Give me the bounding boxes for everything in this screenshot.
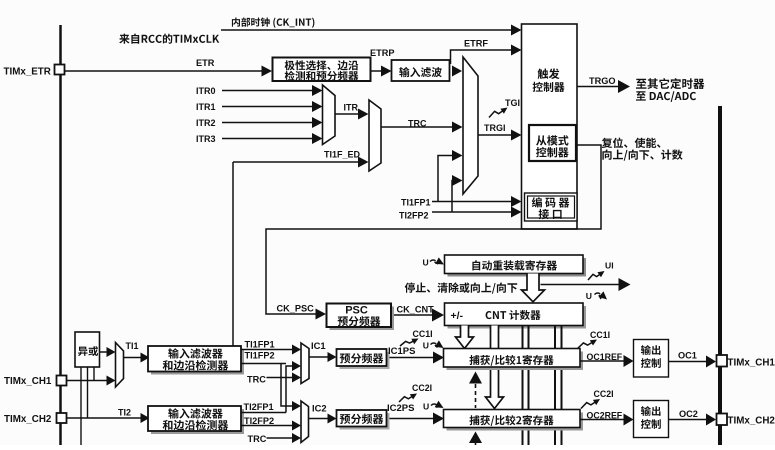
block capture compare register 1 bbox=[447, 352, 584, 371]
svg-text:UI: UI bbox=[605, 261, 614, 271]
capture arrow up ch2 bbox=[469, 432, 482, 444]
block PSC prescaler bbox=[330, 307, 395, 331]
block output control 2 bbox=[634, 401, 669, 438]
svg-text:TI1F_ED: TI1F_ED bbox=[324, 150, 361, 160]
wire ITR0 bbox=[222, 90, 315, 92]
text 预分频器 IC2 bbox=[340, 414, 384, 424]
text 输入滤波 bbox=[399, 67, 442, 77]
wire CK_CNT bbox=[394, 314, 433, 316]
mux TRGI select bbox=[463, 57, 478, 194]
text 输出 1 bbox=[641, 345, 661, 355]
text 停止、清除或向上/向下 bbox=[405, 282, 518, 293]
svg-text:TI2: TI2 bbox=[118, 408, 131, 418]
svg-text:TI1FP2: TI1FP2 bbox=[245, 351, 275, 361]
svg-text:IC1PS: IC1PS bbox=[388, 346, 415, 357]
block trigger controller bbox=[522, 24, 578, 229]
pin TIMx_CH2 right bbox=[717, 414, 728, 426]
wire OC2REF bbox=[580, 419, 625, 421]
block output control 1 bbox=[634, 340, 669, 378]
svg-text:PSC: PSC bbox=[345, 305, 368, 317]
svg-text:TI1FP1: TI1FP1 bbox=[245, 340, 275, 350]
wire CK_INT bbox=[221, 29, 513, 31]
text 编码器 bbox=[532, 197, 570, 207]
svg-text:ITR: ITR bbox=[344, 103, 359, 113]
wire IC2PS bbox=[390, 418, 435, 420]
text 输入滤波器 1 bbox=[168, 348, 223, 359]
svg-text:ETRP: ETRP bbox=[370, 48, 395, 58]
pin TIMx_CH2 bbox=[57, 413, 67, 423]
svg-text:+/-: +/- bbox=[451, 310, 464, 322]
block input filter edge detector 1 bbox=[151, 349, 244, 375]
block CNT counter bbox=[448, 306, 587, 329]
wire IC2 bbox=[309, 418, 330, 420]
block slave mode controller bbox=[529, 125, 576, 161]
wire TI1F_ED bbox=[233, 161, 361, 163]
label 内部时钟 (CK_INT) bbox=[232, 17, 315, 27]
wire slave to CK_PSC bbox=[266, 145, 601, 314]
wire TI1 bbox=[124, 357, 142, 359]
block input filter edge detector 2 bbox=[151, 409, 244, 434]
interrupt TGI zigzag bbox=[489, 109, 506, 118]
wire TRGI bbox=[478, 134, 513, 136]
wire ETRF to trigger bbox=[451, 50, 513, 64]
svg-text:TI2FP2: TI2FP2 bbox=[399, 211, 429, 221]
svg-text:ITR3: ITR3 bbox=[196, 134, 216, 144]
wire ETRP bbox=[371, 70, 384, 72]
svg-text:IC1: IC1 bbox=[311, 340, 326, 351]
text 输入滤波器 2 bbox=[168, 408, 223, 419]
chip boundary right thick line bbox=[718, 106, 722, 445]
svg-text:CK_CNT: CK_CNT bbox=[397, 305, 435, 315]
wire TI2FP2 to mux and encoder bbox=[432, 211, 513, 213]
wire ITR bbox=[335, 113, 361, 115]
wire OC1 bbox=[669, 361, 707, 363]
svg-text:U: U bbox=[423, 258, 429, 268]
wire XOR inputs bbox=[80, 367, 82, 445]
wire TRC bbox=[381, 126, 454, 128]
svg-text:U: U bbox=[586, 291, 592, 301]
text 异或 bbox=[78, 346, 98, 356]
svg-text:ETRF: ETRF bbox=[464, 39, 488, 49]
wire TI1FP1 to mux and encoder bbox=[432, 201, 513, 203]
svg-text:ITR2: ITR2 bbox=[196, 118, 216, 128]
bus CNT to capture1 hollow arrow bbox=[456, 326, 474, 349]
text 捕获/比较2寄存器 bbox=[469, 415, 553, 426]
pin TIMx_CH1 right bbox=[717, 355, 728, 367]
block encoder interface bbox=[525, 193, 578, 221]
block prescaler IC1 bbox=[340, 352, 390, 369]
text 控制器 trigger bbox=[533, 82, 565, 92]
block input filter ETR bbox=[392, 60, 450, 81]
wire ITR2 bbox=[222, 122, 315, 124]
text 预分频器 IC1 bbox=[340, 353, 384, 363]
text 捕获/比较1寄存器 bbox=[469, 355, 553, 366]
text 和边沿检测器 2 bbox=[163, 420, 229, 431]
text 极性选择、边沿 bbox=[285, 60, 359, 70]
text 检测和预分频器 bbox=[285, 71, 359, 81]
wire ITR3 bbox=[222, 138, 315, 140]
wire TRC ch1 bbox=[267, 377, 294, 379]
bus reload to CNT hollow arrow bbox=[522, 274, 545, 302]
svg-text:U: U bbox=[423, 341, 429, 351]
wire TI2 from CH2 pin bbox=[67, 417, 142, 419]
svg-text:IC2PS: IC2PS bbox=[387, 403, 414, 414]
label 来自RCC的TIMxCLK bbox=[119, 34, 219, 44]
text 从模式 bbox=[536, 135, 568, 145]
pin TIMx_CH1 bbox=[57, 376, 67, 386]
wire ITR1 bbox=[222, 106, 315, 108]
block prescaler IC2 bbox=[340, 413, 390, 430]
bus vertical pair D bbox=[554, 326, 556, 446]
svg-text:CC1I: CC1I bbox=[413, 329, 433, 339]
wire ETRF to mux bbox=[452, 66, 462, 77]
block auto-reload register bbox=[448, 258, 587, 277]
svg-text:TRC: TRC bbox=[247, 375, 266, 385]
pin TIMx_ETR bbox=[55, 65, 65, 75]
svg-text:OC1: OC1 bbox=[678, 351, 697, 361]
interrupt CC1I right zigzag bbox=[578, 341, 596, 349]
text 至其它定时器 bbox=[636, 78, 704, 89]
svg-text:TIMx_CH2: TIMx_CH2 bbox=[4, 414, 52, 425]
interrupt CC2I right zigzag bbox=[581, 400, 598, 408]
text 控制器 slave bbox=[536, 147, 569, 157]
svg-text:CC2I: CC2I bbox=[412, 383, 432, 393]
svg-text:TRGO: TRGO bbox=[589, 76, 616, 86]
svg-text:TGI: TGI bbox=[505, 98, 520, 108]
wire TI1FP1 bbox=[241, 349, 293, 351]
svg-text:TIMx_CH1: TIMx_CH1 bbox=[728, 358, 775, 369]
svg-text:CK_PSC: CK_PSC bbox=[277, 304, 315, 314]
svg-text:U: U bbox=[423, 402, 429, 412]
svg-text:TIMx_CH2: TIMx_CH2 bbox=[728, 416, 775, 427]
wire TI2FP1 up bbox=[286, 366, 293, 413]
wire TRC ch2 bbox=[267, 437, 294, 439]
mux ITR select bbox=[323, 85, 336, 145]
wire ETR bbox=[65, 70, 264, 72]
bus vertical pair C bbox=[522, 326, 524, 446]
bus CNT to capture2 hollow arrow bbox=[486, 326, 504, 409]
svg-text:TI2FP2: TI2FP2 bbox=[244, 416, 274, 426]
svg-text:TRC: TRC bbox=[248, 434, 267, 444]
text CNT 计数器 bbox=[486, 310, 541, 320]
wire TI1 from CH1 pin bbox=[67, 380, 109, 382]
interrupt CC2I left zigzag bbox=[399, 395, 415, 403]
capture arrow up ch1 bbox=[469, 372, 482, 384]
chip boundary left line bbox=[59, 25, 62, 445]
block XOR bbox=[75, 332, 100, 367]
text 复位、使能、 bbox=[602, 138, 661, 149]
svg-text:IC2: IC2 bbox=[312, 403, 327, 414]
svg-text:OC2: OC2 bbox=[679, 409, 698, 419]
svg-text:TI2FP1: TI2FP1 bbox=[244, 402, 274, 412]
svg-text:TI1: TI1 bbox=[126, 341, 139, 351]
text 向上/向下、计数 bbox=[602, 150, 682, 161]
text 自动重装载寄存器 bbox=[472, 260, 557, 270]
wire TI1FP2 bbox=[241, 363, 286, 365]
text 和边沿检测器 1 bbox=[163, 360, 229, 371]
text 控制 2 bbox=[641, 419, 661, 429]
wire IC1 bbox=[309, 356, 329, 358]
mux IC1 select bbox=[301, 343, 309, 384]
interrupt UI zigzag bbox=[588, 272, 603, 280]
text 控制 1 bbox=[641, 358, 661, 368]
svg-text:CC1I: CC1I bbox=[590, 330, 610, 340]
text 触发 bbox=[538, 68, 560, 79]
text 接口 bbox=[539, 209, 562, 219]
svg-text:TRGI: TRGI bbox=[484, 123, 506, 133]
svg-text:TI1FP1: TI1FP1 bbox=[401, 198, 431, 208]
wire XOR output bbox=[100, 351, 109, 353]
text 预分频器 PSC bbox=[338, 316, 381, 326]
wire IC1PS bbox=[390, 357, 435, 359]
interrupt CC1I left zigzag bbox=[400, 339, 417, 346]
wire TI2FP1 bbox=[241, 412, 286, 414]
mux TRC select bbox=[369, 100, 381, 171]
block polarity-selection edge-detector prescaler bbox=[273, 58, 371, 82]
event arrow U bbox=[541, 284, 620, 286]
mux IC2 select bbox=[301, 401, 309, 443]
text 至 DAC/ADC bbox=[636, 91, 696, 102]
mux TI1 select bbox=[116, 343, 124, 388]
svg-text:TIMx_CH1: TIMx_CH1 bbox=[4, 376, 52, 387]
block capture compare register 2 bbox=[447, 413, 584, 431]
svg-text:CC2I: CC2I bbox=[594, 389, 614, 399]
wire OC1REF bbox=[580, 360, 625, 362]
svg-text:ITR1: ITR1 bbox=[196, 102, 216, 112]
svg-text:ETR: ETR bbox=[196, 58, 215, 68]
text 输出 2 bbox=[641, 406, 661, 416]
wire TI2FP2 bbox=[241, 425, 293, 427]
wire OC2 bbox=[669, 419, 707, 421]
svg-text:TIMx_ETR: TIMx_ETR bbox=[4, 67, 51, 78]
svg-text:ITR0: ITR0 bbox=[196, 86, 216, 96]
wire TRGO bbox=[577, 86, 619, 88]
